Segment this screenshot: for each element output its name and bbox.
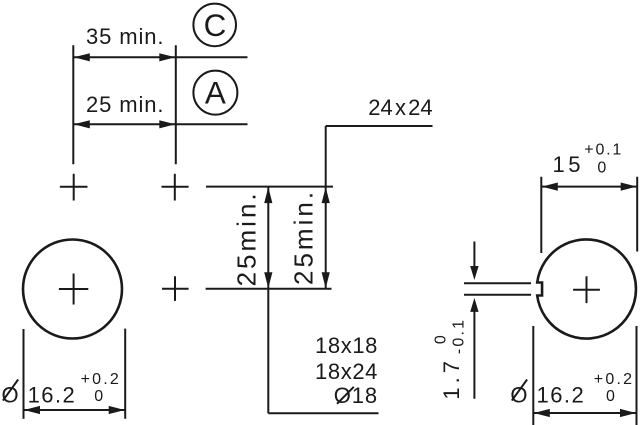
extension line left (x=73.3) [72,45,74,164]
svg-text:25 min.: 25 min. [86,92,164,117]
svg-text:18x18: 18x18 [315,333,378,358]
svg-text:0: 0 [433,333,450,344]
svg-text:15: 15 [553,152,584,177]
extension lines diameter left [23,329,25,419]
svg-text:1.7: 1.7 [439,357,464,400]
svg-text:18x24: 18x24 [315,359,378,384]
dimension line 25 min (datum A line) [73,120,247,128]
svg-text:0: 0 [606,388,617,405]
center cross hole right [573,276,600,303]
svg-text:O18: O18 [334,383,378,408]
key slot line top [464,282,531,284]
dimension line dia 16.2 right [533,409,636,417]
svg-text:25min.: 25min. [289,189,319,285]
rotated label 1.7 with tolerance [433,318,468,400]
dimension line 15 [541,183,637,191]
mounting hole circle right with key notch [537,239,636,338]
vertical dimension 25min (left) with leader to hole list [264,187,378,414]
svg-text:+0.2: +0.2 [81,371,121,388]
svg-text:A: A [205,76,226,111]
svg-text:+0.2: +0.2 [594,371,634,388]
svg-text:0: 0 [597,160,608,177]
svg-text:C: C [204,8,227,43]
extension lines 15 dim [540,177,542,253]
svg-text:25min.: 25min. [231,190,261,286]
dimension line 35 min (datum C line) [73,53,247,61]
hole size list [315,333,378,408]
svg-text:0: 0 [94,388,105,405]
svg-text:35 min.: 35 min. [86,24,164,49]
center cross bottom-right of pattern [162,276,189,301]
balloon C [193,4,236,47]
row line upper (y=186.6) [206,186,333,188]
key slot line bottom [464,294,531,296]
svg-text:+0.1: +0.1 [584,142,623,159]
mounting hole circle left [23,240,122,339]
balloon A [193,71,237,115]
vertical dimension 25min (right) with leader to 24x24 [322,126,433,289]
arrow up to slot (1.7 dim) [470,298,478,399]
center cross hole left [59,274,88,305]
row line lower (y=288.8) [206,288,332,290]
arrow down to slot (1.7 dim) [470,242,478,281]
center cross top-left [60,174,88,201]
center cross top-right [162,174,189,201]
extension lines diameter right [532,326,534,425]
svg-text:24x24: 24x24 [368,95,432,120]
svg-text:-0.1: -0.1 [450,318,467,354]
extension line right (x=175.8) [175,45,177,164]
dimension line dia 16.2 left [24,406,126,414]
